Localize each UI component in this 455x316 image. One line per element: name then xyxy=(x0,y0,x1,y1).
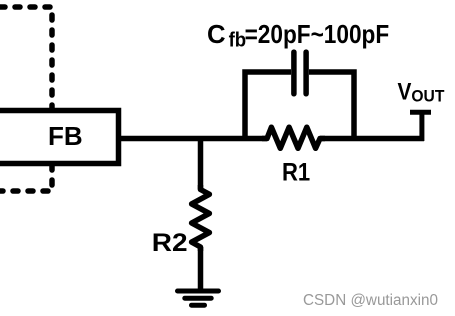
svg-text:CSDN @wutianxin0: CSDN @wutianxin0 xyxy=(303,292,438,309)
resistor R2 xyxy=(192,185,210,251)
svg-text:fb: fb xyxy=(229,30,247,52)
svg-text:R2: R2 xyxy=(152,229,188,257)
ground xyxy=(178,291,219,305)
wire FB pin to node A xyxy=(119,136,268,142)
resistor R1 xyxy=(262,127,325,148)
VOUT terminal xyxy=(410,112,431,141)
wire node A down to resistor R2 xyxy=(198,139,204,190)
wire R2 to ground xyxy=(198,247,204,290)
svg-text:R1: R1 xyxy=(282,159,310,187)
svg-text:FB: FB xyxy=(48,121,83,151)
svg-text:=20pF~100pF: =20pF~100pF xyxy=(245,19,390,49)
dashed IC block outline (partially off-screen) xyxy=(0,7,52,191)
svg-text:OUT: OUT xyxy=(411,86,445,105)
wire capacitor right plate down to VOUT wire xyxy=(309,72,354,141)
wire R1 right side to VOUT terminal xyxy=(320,136,424,142)
svg-text:V: V xyxy=(398,79,412,106)
FB pin box xyxy=(0,111,119,164)
svg-text:C: C xyxy=(207,19,226,49)
wire node A up to capacitor left plate xyxy=(245,72,291,141)
capacitor Cfb plates xyxy=(294,52,306,94)
